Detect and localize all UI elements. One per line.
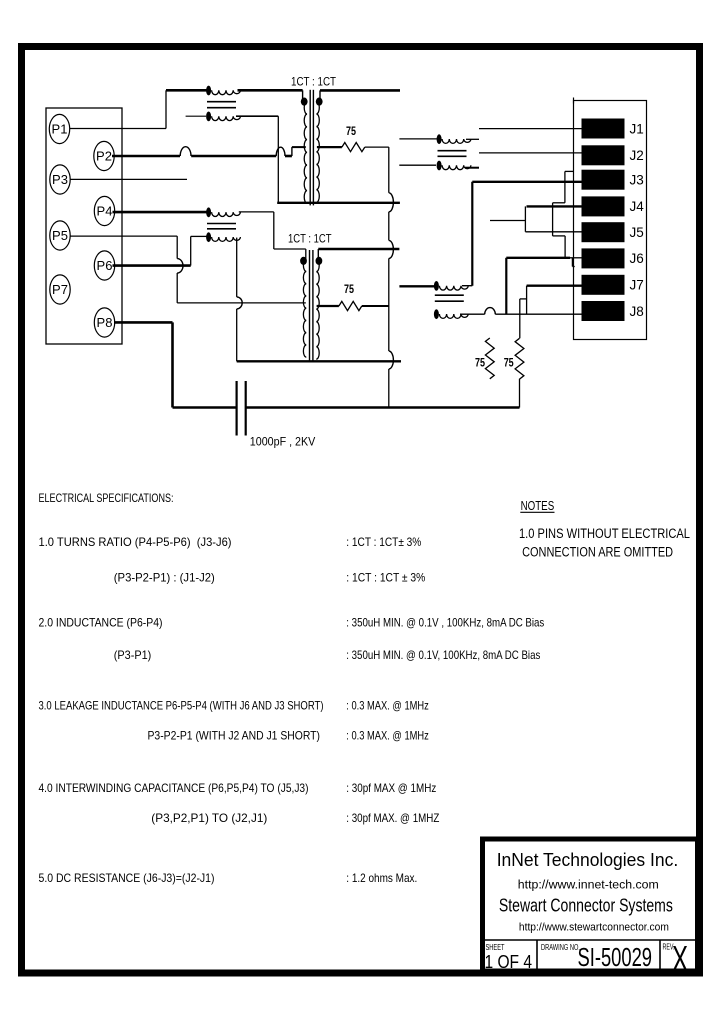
svg-text:75: 75 xyxy=(504,356,514,370)
svg-text:P1: P1 xyxy=(52,122,68,137)
svg-text:DRAWING NO.: DRAWING NO. xyxy=(541,943,580,952)
svg-text:1.0 PINS WITHOUT ELECTRICAL: 1.0 PINS WITHOUT ELECTRICAL xyxy=(519,526,690,541)
svg-text:P3: P3 xyxy=(52,172,68,187)
svg-text:J8: J8 xyxy=(630,304,644,319)
svg-text:5.0 DC RESISTANCE (J6-J3)=(J2-: 5.0 DC RESISTANCE (J6-J3)=(J2-J1) xyxy=(39,872,215,885)
svg-text:P2: P2 xyxy=(96,149,112,164)
svg-text:SHEET: SHEET xyxy=(486,943,505,952)
svg-text:http://www.innet-tech.com: http://www.innet-tech.com xyxy=(518,877,659,891)
svg-text:J1: J1 xyxy=(630,121,644,136)
svg-text:: 1.2 ohms Max.: : 1.2 ohms Max. xyxy=(346,872,417,885)
svg-text:: 0.3 MAX. @ 1MHz: : 0.3 MAX. @ 1MHz xyxy=(346,700,429,713)
svg-text:P5: P5 xyxy=(52,228,68,243)
svg-text:P4: P4 xyxy=(97,204,113,219)
svg-text:J7: J7 xyxy=(630,278,644,293)
svg-text:(P3-P1): (P3-P1) xyxy=(114,649,152,662)
svg-text:1CT : 1CT: 1CT : 1CT xyxy=(288,232,332,246)
svg-text:J2: J2 xyxy=(630,148,644,163)
svg-text:InNet Technologies Inc.: InNet Technologies Inc. xyxy=(497,849,679,870)
svg-text:ELECTRICAL SPECIFICATIONS:: ELECTRICAL SPECIFICATIONS: xyxy=(39,492,174,505)
svg-text:: 0.3 MAX. @ 1MHz: : 0.3 MAX. @ 1MHz xyxy=(346,730,429,743)
svg-text:: 30pf MAX @ 1MHz: : 30pf MAX @ 1MHz xyxy=(346,782,436,795)
svg-text:4.0 INTERWINDING CAPACITANCE (: 4.0 INTERWINDING CAPACITANCE (P6,P5,P4) … xyxy=(39,782,309,795)
svg-text:P7: P7 xyxy=(52,282,68,297)
svg-text:CONNECTION ARE OMITTED: CONNECTION ARE OMITTED xyxy=(522,545,673,560)
svg-text:75: 75 xyxy=(344,282,354,296)
svg-text:: 30pf MAX. @ 1MHZ: : 30pf MAX. @ 1MHZ xyxy=(346,812,439,825)
svg-text:(P3,P2,P1) TO (J2,J1): (P3,P2,P1) TO (J2,J1) xyxy=(151,812,267,825)
svg-text:1CT : 1CT: 1CT : 1CT xyxy=(291,75,337,89)
svg-text:(P3-P2-P1) : (J1-J2): (P3-P2-P1) : (J1-J2) xyxy=(114,572,215,585)
svg-text:75: 75 xyxy=(475,356,485,370)
svg-text:Stewart Connector Systems: Stewart Connector Systems xyxy=(499,895,673,916)
svg-text:SI-50029: SI-50029 xyxy=(578,942,653,972)
svg-text:J3: J3 xyxy=(630,173,644,188)
svg-text:NOTES: NOTES xyxy=(521,499,555,513)
svg-text:P3-P2-P1 (WITH J2 AND J1 SHORT: P3-P2-P1 (WITH J2 AND J1 SHORT) xyxy=(148,730,321,743)
svg-text:J5: J5 xyxy=(630,225,644,240)
svg-text:1000pF , 2KV: 1000pF , 2KV xyxy=(250,435,315,449)
svg-text:2.0 INDUCTANCE (P6-P4): 2.0 INDUCTANCE (P6-P4) xyxy=(39,617,163,630)
svg-text:1 OF 4: 1 OF 4 xyxy=(485,952,533,972)
svg-text:1.0 TURNS RATIO (P4-P5-P6) (J: 1.0 TURNS RATIO (P4-P5-P6) (J3-J6) xyxy=(39,536,232,549)
svg-text:75: 75 xyxy=(346,124,356,138)
svg-text:P8: P8 xyxy=(97,315,113,330)
svg-text:P6: P6 xyxy=(97,258,113,273)
svg-text:3.0 LEAKAGE INDUCTANCE P6-P5-P: 3.0 LEAKAGE INDUCTANCE P6-P5-P4 (WITH J6… xyxy=(39,700,324,713)
svg-text:J6: J6 xyxy=(630,251,644,266)
svg-text:: 1CT : 1CT ± 3%: : 1CT : 1CT ± 3% xyxy=(346,572,425,585)
svg-text:http://www.stewartconnector.co: http://www.stewartconnector.com xyxy=(519,922,669,934)
svg-text:: 350uH MIN. @ 0.1V, 100KHz, 8: : 350uH MIN. @ 0.1V, 100KHz, 8mA DC Bias xyxy=(346,649,540,662)
svg-text:J4: J4 xyxy=(630,199,645,214)
svg-text:: 1CT : 1CT± 3%: : 1CT : 1CT± 3% xyxy=(346,536,421,549)
svg-text:X: X xyxy=(672,938,688,979)
svg-text:: 350uH MIN. @ 0.1V , 100KHz,: : 350uH MIN. @ 0.1V , 100KHz, 8mA DC Bia… xyxy=(346,617,544,630)
